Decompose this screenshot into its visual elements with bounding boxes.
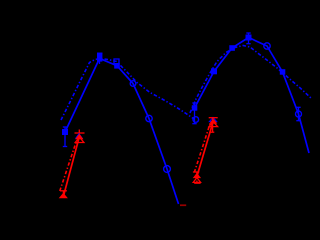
right blue square S6r	[280, 69, 286, 75]
right red filled triangle bottom	[193, 173, 201, 178]
right blue square S3r	[229, 45, 235, 51]
right panel solid blue curve	[195, 38, 310, 154]
left panel dash-dot blue model curve	[61, 59, 194, 121]
left blue square S3	[114, 63, 120, 69]
left blue error bar 1	[63, 127, 67, 148]
left red bottom error bar	[60, 191, 67, 194]
left red open triangle (dash-dot marker)	[75, 137, 84, 142]
left blue square S2	[97, 53, 102, 62]
right blue error bar S1r	[192, 103, 196, 125]
right red bottom error bar	[193, 172, 201, 183]
left blue error bar 2	[97, 53, 102, 64]
right red filled triangle top	[209, 118, 217, 123]
left blue open circle C6	[164, 166, 171, 173]
right red open triangle bottom	[193, 178, 200, 183]
left red dash-dot line	[60, 142, 77, 192]
left red filled triangle bottom	[59, 193, 68, 198]
right blue hidden open triangle	[210, 118, 217, 122]
right panel dash-dot blue model curve	[190, 46, 312, 114]
left blue open square (dash-dot peak marker)	[114, 59, 119, 64]
right blue square S4r	[246, 35, 252, 41]
left blue hidden open triangle	[76, 134, 82, 138]
left blue square S1	[62, 129, 68, 135]
dark red tick mark bottom	[180, 204, 186, 206]
right blue square S1r	[192, 105, 198, 111]
right blue open circle C7r	[296, 111, 302, 117]
left blue open circle C4	[130, 81, 136, 87]
right blue square S2r	[211, 68, 217, 74]
right red solid line	[197, 121, 213, 176]
right red top error bar	[209, 118, 218, 133]
left red solid line	[64, 137, 80, 196]
right blue open circle C5r	[264, 43, 270, 49]
right red dash-dot line	[194, 123, 210, 173]
right blue error bar C7r	[296, 107, 300, 121]
right blue error bar S4r	[246, 33, 250, 45]
left blue open circle C5	[146, 115, 152, 121]
right blue open circle below S1r	[193, 117, 199, 123]
right red open triangle top	[209, 122, 218, 127]
left panel solid blue curve	[65, 59, 179, 205]
left red top error bar	[75, 130, 85, 137]
left red filled triangle top	[75, 134, 83, 139]
